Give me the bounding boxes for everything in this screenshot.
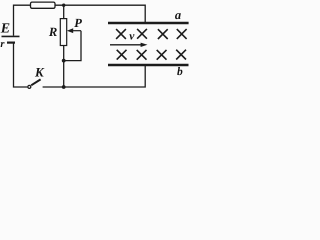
wire: node A down to potentiometer R xyxy=(63,5,65,18)
junction node B (wiper ties to R bottom) xyxy=(62,59,66,63)
battery negative plate (short thick) xyxy=(7,41,15,43)
switch K pivot circle xyxy=(28,85,31,88)
battery E positive plate (long) xyxy=(2,35,20,37)
svg-text:K: K xyxy=(34,65,45,80)
wire: battery - down to switch terminal xyxy=(14,44,28,88)
svg-text:P: P xyxy=(74,16,82,30)
capacitor plate a xyxy=(108,22,189,25)
field cross row1 #3 xyxy=(158,29,168,39)
wire: resistor box right to plate-a riser xyxy=(55,5,145,22)
slider arrow P (wiper) xyxy=(72,30,81,32)
wire: R bottom down to bottom rail xyxy=(63,46,65,88)
junction node C (bottom rail) xyxy=(62,85,66,89)
field cross row1 #1 xyxy=(116,29,126,39)
series resistor box xyxy=(31,2,56,8)
field cross row2 #2 xyxy=(137,50,147,60)
field cross row2 #1 xyxy=(117,50,127,60)
junction node A (top) xyxy=(62,3,65,6)
potentiometer R box xyxy=(60,19,66,46)
wire: switch to plate-b riser xyxy=(43,66,146,87)
field cross row1 #4 xyxy=(177,29,187,39)
wire: wiper down and left to node B xyxy=(64,31,81,61)
svg-text:v: v xyxy=(129,30,135,42)
switch K lever xyxy=(31,79,40,85)
wire: battery + up and right to series resistor xyxy=(14,5,31,35)
field cross row1 #2 xyxy=(137,29,147,39)
svg-text:a: a xyxy=(175,8,181,22)
capacitor plate b xyxy=(108,64,189,67)
field cross row2 #3 xyxy=(157,50,167,60)
svg-text:b: b xyxy=(177,66,183,78)
svg-text:E: E xyxy=(0,22,10,37)
velocity arrow xyxy=(110,44,141,46)
svg-text:R: R xyxy=(48,25,57,39)
field cross row2 #4 xyxy=(176,50,186,60)
